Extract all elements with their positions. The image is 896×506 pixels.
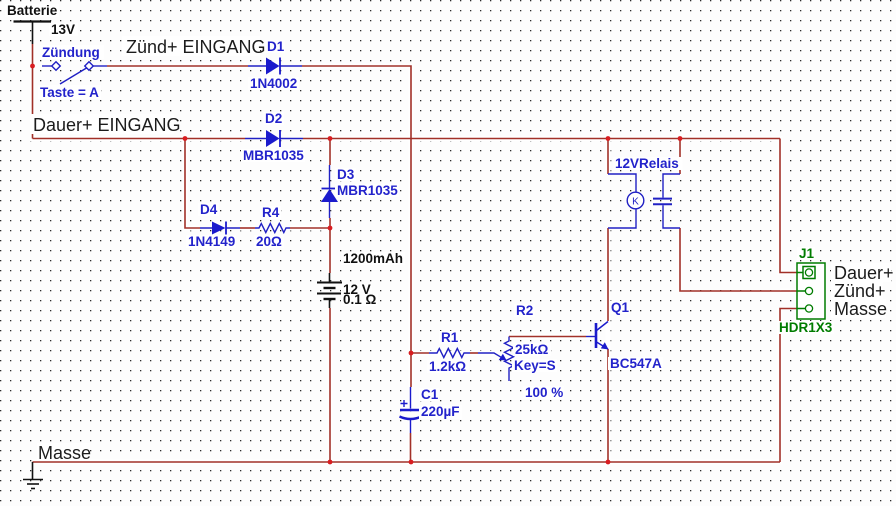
svg-text:20Ω: 20Ω — [256, 234, 282, 249]
label Dauer+ (J1 pin1) — [831, 263, 894, 283]
wire: Dauer+ row from left corner to D2 anode — [33, 138, 246, 140]
svg-text:Key=S: Key=S — [514, 358, 556, 373]
label 13V — [49, 22, 78, 37]
svg-text:R1: R1 — [441, 330, 459, 345]
resistor R4 20Ω — [255, 224, 290, 233]
svg-text:100 %: 100 % — [525, 385, 563, 400]
label MBR1035 (D2) — [241, 148, 305, 163]
potentiometer R2 25kΩ Key=S (vertical with wiper arrow) — [478, 337, 514, 382]
svg-text:Zündung: Zündung — [42, 45, 100, 60]
wire: R1 right lead to pot wiper — [470, 352, 478, 354]
label 0.1 Ω — [341, 292, 378, 307]
label Dauer+ EINGANG — [30, 114, 181, 135]
node: relay contact top junction — [678, 136, 683, 141]
svg-text:25kΩ: 25kΩ — [515, 342, 549, 357]
svg-text:MBR1035: MBR1035 — [337, 183, 398, 198]
label Zündung — [40, 45, 104, 60]
label Masse (ground net) — [37, 443, 91, 463]
label BC547A — [608, 356, 663, 371]
wire: battery feed down from Batterie to switch — [32, 44, 34, 66]
svg-text:D2: D2 — [265, 111, 282, 126]
svg-text:HDR1X3: HDR1X3 — [779, 320, 833, 335]
svg-text:Masse: Masse — [38, 443, 91, 463]
wire: relay contact top feed — [679, 139, 681, 175]
wire: node down to C1 top — [410, 353, 412, 387]
svg-text:1N4002: 1N4002 — [250, 76, 297, 91]
label 1N4002 — [248, 76, 299, 91]
node: relay coil top junction — [606, 136, 611, 141]
label 20Ω — [254, 234, 284, 249]
wire: switch to D1 anode — [107, 65, 248, 67]
svg-text:BC547A: BC547A — [610, 356, 662, 371]
diode D3 MBR1035 (vertical, pointing up) — [321, 165, 338, 218]
svg-text:Batterie: Batterie — [7, 3, 58, 18]
svg-text:Dauer+ EINGANG: Dauer+ EINGANG — [33, 115, 181, 135]
svg-text:K: K — [632, 197, 639, 208]
label Zünd+ (J1 pin2) — [831, 281, 886, 301]
wire: D2 cathode to right corner above J1 — [303, 138, 780, 140]
node: R1 / C1 / D1 junction — [409, 351, 414, 356]
wire: R4 to D3/battery junction — [290, 227, 330, 229]
resistor R1 1.2kΩ — [429, 349, 470, 358]
diode D2 MBR1035 — [245, 130, 303, 147]
connector J1 HDR1X3 — [797, 263, 825, 319]
label 12VRelais — [613, 156, 682, 171]
svg-text:R4: R4 — [262, 205, 280, 220]
svg-text:Taste = A: Taste = A — [40, 85, 99, 100]
label R2 — [514, 303, 535, 318]
switch S1 Zündung Taste=A — [42, 62, 107, 84]
wire: D4 cathode to R4 — [240, 227, 255, 229]
svg-text:Dauer+: Dauer+ — [834, 263, 894, 283]
diode D4 1N4149 — [200, 222, 240, 235]
label Zünd+ EINGANG — [122, 36, 266, 57]
label C1 — [419, 387, 439, 402]
wire: C1 bottom to ground row — [410, 433, 412, 462]
node: Dauer+ / D4 branch junction — [183, 136, 188, 141]
svg-text:R2: R2 — [516, 303, 533, 318]
capacitor C1 220µF (polarized) — [400, 387, 422, 433]
label R1 — [439, 330, 460, 345]
battery terminal Batterie 13V — [14, 22, 52, 45]
node: battery ground junction — [328, 460, 333, 465]
node: switch junction — [30, 64, 35, 69]
svg-text:Zünd+: Zünd+ — [834, 281, 886, 301]
svg-text:12VRelais: 12VRelais — [615, 156, 679, 171]
label R4 — [260, 205, 281, 220]
wire: relay contact bottom to J1 pin2 Zünd+ — [680, 228, 797, 291]
wire: pot top to Q1 base — [509, 336, 586, 338]
wire: D2 junction down to D3 cathode — [329, 139, 331, 166]
wire: D1 cathode right then down to R1 node — [302, 66, 411, 353]
label Batterie — [5, 3, 59, 18]
label Masse (J1 pin3) — [831, 299, 887, 319]
wire: relay coil bottom to Q1 collector — [607, 228, 609, 321]
wire: right drop to J1 pin1 Dauer+ — [780, 139, 797, 273]
label 1.2kΩ — [427, 359, 469, 374]
svg-text:Q1: Q1 — [611, 300, 630, 315]
svg-text:1N4149: 1N4149 — [188, 234, 235, 249]
svg-text:J1: J1 — [799, 246, 815, 261]
svg-text:13V: 13V — [51, 22, 75, 37]
label D4 — [198, 202, 219, 217]
label D1 — [265, 39, 285, 54]
wire: relay coil top feed — [607, 139, 609, 175]
wire: junction down to battery plus — [329, 228, 331, 273]
node: D2 out / D3 junction — [328, 136, 333, 141]
node: C1 ground junction — [409, 460, 414, 465]
label Q1 — [609, 300, 630, 315]
wire: left column from switch junction down to Dauer+ corner — [32, 66, 34, 139]
battery V1 12V 0.1Ω 1200mAh — [317, 273, 342, 308]
transistor Q1 BC547A (NPN) — [586, 322, 609, 350]
label HDR1X3 — [777, 320, 834, 335]
svg-text:220µF: 220µF — [421, 404, 460, 419]
label Key=S — [512, 358, 557, 373]
wire: battery minus down to ground row — [329, 308, 331, 462]
diode D1 1N4002 — [248, 58, 302, 75]
node: emitter ground junction — [606, 460, 611, 465]
label D2 — [263, 111, 284, 126]
label 1200mAh — [341, 251, 405, 266]
wire: node to R1 left lead — [411, 352, 429, 354]
svg-text:Zünd+ EINGANG: Zünd+ EINGANG — [126, 37, 266, 57]
wire: Masse bottom row — [33, 461, 781, 463]
svg-text:1.2kΩ: 1.2kΩ — [429, 359, 466, 374]
svg-text:Masse: Masse — [834, 299, 887, 319]
svg-text:0.1 Ω: 0.1 Ω — [343, 292, 377, 307]
label 1N4149 — [186, 234, 236, 249]
relay K1 coil (12VRelais) — [608, 174, 644, 228]
node: R4 / D3 / battery junction — [328, 226, 333, 231]
svg-text:C1: C1 — [421, 387, 439, 402]
svg-text:MBR1035: MBR1035 — [243, 148, 304, 163]
svg-text:D1: D1 — [267, 39, 285, 54]
label 220µF — [419, 404, 462, 419]
label MBR1035 (D3) — [335, 183, 399, 198]
svg-text:D4: D4 — [200, 202, 218, 217]
wire: D3 anode down to R4 junction — [329, 218, 331, 228]
wire: Dauer+ junction down to D4 row — [185, 139, 200, 229]
ground (Masse) — [23, 462, 43, 489]
label 12 V — [341, 282, 372, 297]
label Taste = A — [38, 85, 101, 100]
svg-text:D3: D3 — [337, 167, 355, 182]
label 100 % — [523, 385, 564, 400]
label 25kΩ — [513, 342, 551, 357]
wire: Q1 emitter down to ground row — [607, 349, 609, 462]
svg-text:1200mAh: 1200mAh — [343, 251, 403, 266]
relay K1 contact — [653, 174, 680, 228]
label D3 — [335, 167, 356, 182]
label J1 — [797, 246, 815, 261]
wire: J1 pin3 Masse drop — [780, 309, 797, 463]
